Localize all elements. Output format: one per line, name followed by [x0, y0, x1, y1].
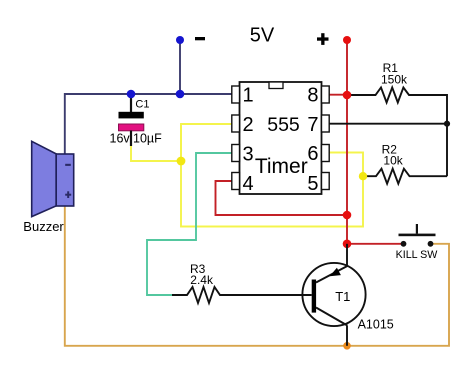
node yellow junction C1 — [177, 157, 186, 166]
svg-text:2.4k: 2.4k — [190, 273, 214, 287]
wire teal pin3 to R3 — [147, 153, 233, 295]
svg-text:7: 7 — [307, 114, 318, 136]
resistor R3 — [172, 287, 312, 303]
pin 5 — [322, 173, 330, 190]
pin 3 — [232, 145, 240, 162]
svg-text:555: 555 — [267, 114, 300, 136]
label minus terminal — [195, 37, 205, 40]
pin 4 — [232, 173, 240, 190]
pin 2 — [232, 115, 240, 132]
svg-text:150k: 150k — [381, 73, 408, 87]
buzzer — [32, 141, 74, 216]
svg-text:4: 4 — [243, 173, 254, 195]
svg-text:C1: C1 — [135, 99, 149, 111]
wire blue ground rail — [65, 94, 233, 154]
svg-text:5: 5 — [307, 173, 318, 195]
svg-text:10µF: 10µF — [133, 131, 162, 145]
svg-text:6: 6 — [307, 143, 318, 165]
resistor R2 — [363, 169, 447, 184]
svg-text:KILL SW: KILL SW — [396, 249, 439, 261]
svg-text:A1015: A1015 — [358, 317, 394, 331]
node blue minus terminal — [176, 36, 184, 44]
pin 6 — [322, 145, 330, 162]
wire yellow net pin2/pin6 loop — [181, 124, 363, 227]
svg-text:10k: 10k — [383, 154, 403, 168]
pin 8 — [322, 86, 330, 103]
resistor R1 — [347, 88, 447, 177]
wire red supply rail — [346, 40, 348, 244]
node red junction R1 — [343, 91, 352, 100]
pin 7 — [322, 115, 330, 132]
node black junction pin7/R1/R2 — [444, 121, 450, 127]
switch KILL SW — [399, 224, 436, 247]
wire blue minus terminal drop — [179, 40, 181, 94]
svg-text:1: 1 — [243, 85, 254, 107]
transistor T1 — [302, 244, 365, 346]
wire yellow C1 bottom branch — [131, 124, 181, 161]
pin 1 — [232, 86, 240, 103]
node red junction emitter — [343, 240, 352, 249]
wire red pin4 — [216, 181, 348, 215]
node red plus terminal — [343, 36, 351, 44]
svg-text:8: 8 — [307, 85, 318, 107]
node blue junction minus rail — [176, 90, 185, 99]
node blue junction at C1 top — [127, 90, 136, 99]
svg-text:Timer: Timer — [255, 155, 308, 178]
wire red to kill switch — [347, 243, 402, 245]
svg-text:T1: T1 — [335, 289, 350, 304]
wire orange return loop — [65, 206, 449, 346]
node yellow junction R2 — [359, 172, 367, 180]
node red junction pin4 line — [343, 211, 352, 220]
node orange junction collector — [343, 342, 351, 350]
wire red pin8 — [329, 94, 347, 96]
svg-text:16v: 16v — [110, 131, 131, 145]
svg-text:3: 3 — [243, 144, 254, 166]
svg-text:2: 2 — [243, 114, 254, 136]
capacitor C1 — [119, 94, 144, 146]
svg-text:5V: 5V — [250, 24, 275, 46]
label plus terminal — [317, 37, 329, 40]
svg-text:Buzzer: Buzzer — [23, 219, 64, 234]
op-amp U1 555 IC body — [232, 82, 329, 194]
wire black pin7 — [329, 123, 447, 125]
